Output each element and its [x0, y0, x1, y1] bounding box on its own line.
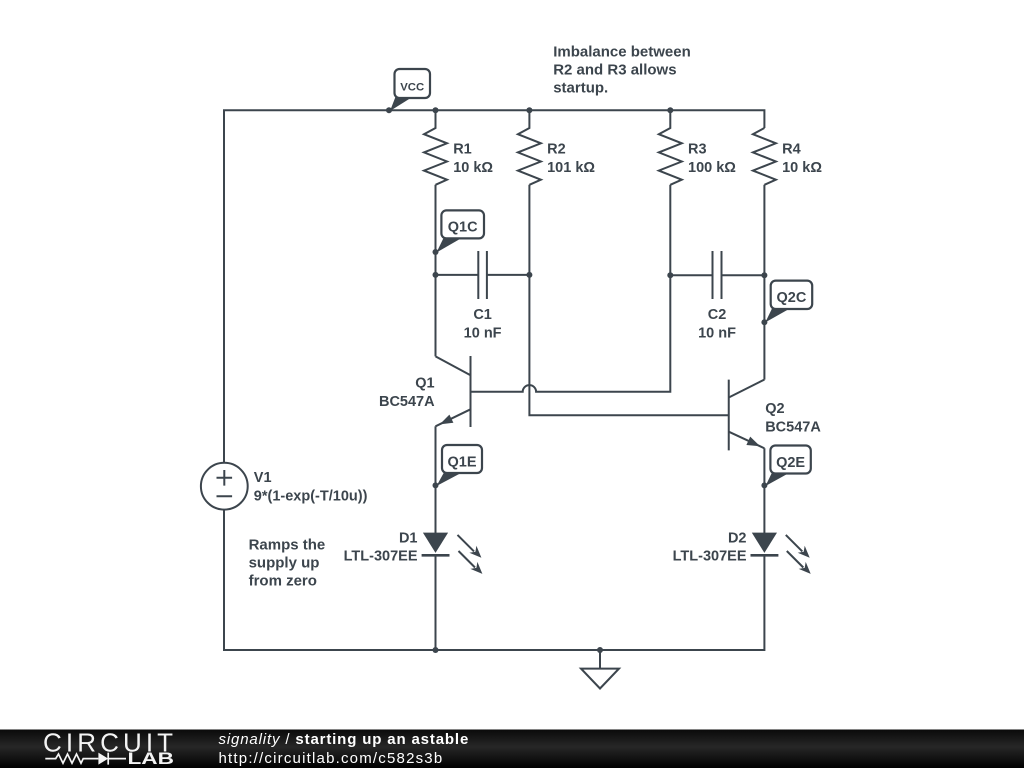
label R2 — [547, 141, 595, 176]
voltage source V1 — [201, 463, 248, 510]
flag Q2C — [765, 281, 812, 323]
svg-text:D1: D1 — [399, 530, 418, 546]
svg-text:9*(1-exp(-T/10u)): 9*(1-exp(-T/10u)) — [254, 489, 368, 505]
ground — [581, 650, 619, 689]
svg-text:R3: R3 — [688, 141, 707, 157]
wire R3 bottom — [669, 185, 671, 275]
svg-text:101 kΩ: 101 kΩ — [547, 160, 595, 176]
node ground junction — [597, 647, 603, 653]
wire bottom rail — [224, 510, 764, 650]
flag Q2E — [766, 446, 811, 487]
label R4 — [782, 141, 822, 176]
label R3 — [688, 141, 736, 176]
svg-text:Imbalance between: Imbalance between — [553, 43, 691, 60]
wire Q2 emitter down — [763, 448, 765, 533]
flag Q1C — [437, 210, 485, 252]
LED D2 — [751, 533, 811, 574]
svg-text:Q2C: Q2C — [776, 290, 806, 306]
svg-text:10 nF: 10 nF — [464, 326, 502, 342]
svg-text:Ramps the: Ramps the — [249, 537, 326, 554]
svg-text:Q1: Q1 — [415, 375, 434, 391]
resistor R4 — [753, 128, 776, 185]
annotation imbalance — [553, 43, 691, 96]
svg-text:startup.: startup. — [553, 80, 608, 97]
footer title — [219, 731, 470, 767]
transistor Q2 — [729, 380, 765, 451]
label V1 — [254, 470, 368, 505]
label R1 — [453, 141, 493, 176]
flag Q1E — [437, 445, 483, 486]
label Q1 — [379, 375, 435, 410]
node C2 right — [761, 272, 767, 278]
wire top rail — [224, 110, 764, 463]
flag VCC — [390, 69, 430, 111]
footer logo CIRCUIT LAB — [43, 727, 177, 768]
svg-text:R2: R2 — [547, 141, 566, 157]
svg-text:C2: C2 — [708, 307, 727, 323]
svg-text:Q2: Q2 — [765, 401, 784, 417]
capacitor C2 — [670, 251, 764, 299]
wire R2 to Q2 base — [529, 185, 728, 415]
svg-text:LAB: LAB — [128, 750, 174, 768]
wire D1 to bottom rail — [435, 556, 437, 650]
svg-text:C1: C1 — [473, 307, 492, 323]
svg-text:Q1C: Q1C — [448, 219, 478, 235]
svg-text:BC547A: BC547A — [765, 419, 821, 435]
svg-text:LTL-307EE: LTL-307EE — [344, 548, 418, 564]
node Q1C — [433, 249, 439, 255]
node VCC tap — [386, 107, 392, 113]
svg-text:from zero: from zero — [249, 572, 317, 589]
footer bar — [0, 730, 1024, 768]
node D1 bottom — [433, 647, 439, 653]
svg-text:V1: V1 — [254, 470, 272, 486]
svg-text:Q2E: Q2E — [776, 455, 805, 471]
LED D1 — [422, 533, 483, 574]
label C2 — [698, 307, 736, 342]
svg-text:R2 and R3 allows: R2 and R3 allows — [553, 62, 676, 79]
svg-text:10 nF: 10 nF — [698, 326, 736, 342]
wire Q1 base to C2 (with hop) — [471, 275, 671, 392]
label D2 — [673, 530, 747, 564]
label D1 — [344, 530, 418, 564]
label C1 — [464, 307, 502, 342]
resistor R3 — [659, 110, 682, 185]
capacitor C1 — [436, 251, 530, 299]
svg-text:10 kΩ: 10 kΩ — [453, 160, 493, 176]
node C1 left — [433, 272, 439, 278]
svg-text:VCC: VCC — [400, 82, 424, 94]
svg-text:signality / starting up an ast: signality / starting up an astable — [219, 731, 470, 748]
resistor R2 — [518, 110, 541, 185]
resistor R1 — [424, 110, 447, 185]
svg-text:BC547A: BC547A — [379, 394, 435, 410]
node C2 left — [667, 272, 673, 278]
svg-text:Q1E: Q1E — [447, 454, 476, 470]
transistor Q1 — [436, 356, 471, 427]
svg-text:supply up: supply up — [249, 555, 320, 572]
wire R1 to Q1 collector — [435, 185, 437, 357]
node Q2E — [761, 482, 767, 488]
node R2 top — [526, 107, 532, 113]
node Q1E — [433, 482, 439, 488]
node Q2C — [761, 319, 767, 325]
svg-text:LTL-307EE: LTL-307EE — [673, 548, 747, 564]
svg-text:R1: R1 — [453, 141, 472, 157]
wire Q1 emitter down — [435, 426, 437, 533]
svg-text:10 kΩ: 10 kΩ — [782, 160, 822, 176]
annotation ramps — [249, 537, 326, 590]
svg-text:D2: D2 — [728, 530, 747, 546]
svg-text:100 kΩ: 100 kΩ — [688, 160, 736, 176]
svg-text:http://circuitlab.com/c582s3b: http://circuitlab.com/c582s3b — [219, 750, 444, 767]
node R1 top — [433, 107, 439, 113]
wire R4 to Q2 collector — [763, 185, 765, 380]
label Q2 — [765, 401, 821, 436]
node C1 right — [526, 272, 532, 278]
svg-text:R4: R4 — [782, 141, 801, 157]
node R3 top — [667, 107, 673, 113]
